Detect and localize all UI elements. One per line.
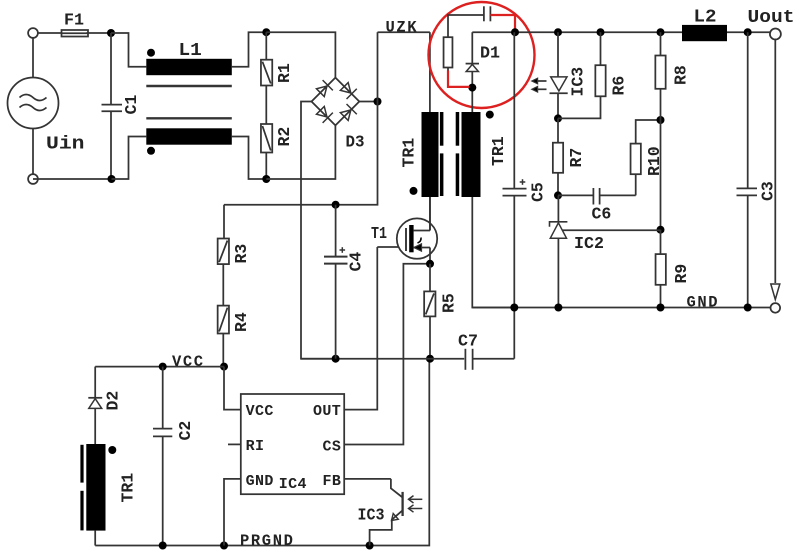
TR1 core dashes xyxy=(440,112,459,196)
svg-text:IC4: IC4 xyxy=(279,476,307,493)
svg-text:OUT: OUT xyxy=(313,403,341,420)
node junction xyxy=(262,28,270,36)
resistor R2 xyxy=(261,124,272,153)
svg-text:Uout: Uout xyxy=(748,8,795,28)
wire primary bottom xyxy=(429,197,431,231)
label C3 xyxy=(759,181,778,201)
wire xyxy=(112,137,147,180)
label TR1 left xyxy=(400,138,419,168)
node junction xyxy=(108,175,116,183)
svg-text:R8: R8 xyxy=(672,65,691,85)
label R1 xyxy=(275,63,294,83)
label C4 xyxy=(347,252,366,272)
wire DC minus xyxy=(301,102,336,359)
svg-text:GND: GND xyxy=(687,294,720,312)
wire xyxy=(266,125,335,179)
TR1 aux polarity dot xyxy=(108,446,116,454)
svg-text:C1: C1 xyxy=(122,95,141,115)
red wire xyxy=(448,71,470,87)
wire xyxy=(266,32,335,78)
resistor R7 xyxy=(553,118,563,195)
svg-text:R2: R2 xyxy=(275,127,294,147)
svg-text:R4: R4 xyxy=(232,312,251,332)
bridge diode top-right xyxy=(340,83,356,99)
bridge diode top-left xyxy=(316,80,332,96)
label IC2 xyxy=(574,235,604,254)
label R2 xyxy=(275,127,294,147)
IC3 LED arrows xyxy=(532,78,547,92)
L1 polarity dot bottom xyxy=(147,147,155,155)
node junction xyxy=(511,28,519,36)
label TR1 right xyxy=(489,136,508,166)
wire IC2 ref xyxy=(563,229,661,231)
TR1 aux core dash xyxy=(80,445,83,531)
wire GND pin xyxy=(224,479,241,546)
svg-text:C5: C5 xyxy=(529,182,548,202)
bridge rectifier D3 diamond xyxy=(312,78,360,126)
wire xyxy=(448,15,484,37)
capacitor C4 xyxy=(324,205,348,359)
node junction xyxy=(159,363,167,371)
node junction xyxy=(332,201,340,209)
label C6 xyxy=(592,205,612,224)
label IC4 xyxy=(279,476,307,493)
wire CS xyxy=(344,264,430,445)
label L2 xyxy=(694,8,717,28)
C4 plus sign xyxy=(340,247,346,253)
terminal input top xyxy=(28,28,38,38)
resistor R4 xyxy=(218,306,229,334)
L1 core xyxy=(146,86,232,118)
label L1 xyxy=(179,41,203,61)
AC source Uin xyxy=(8,38,59,184)
capacitor C3 xyxy=(737,32,758,307)
terminal GND xyxy=(771,303,781,313)
capacitor C1 xyxy=(102,33,123,179)
wire xyxy=(223,205,225,239)
svg-text:R3: R3 xyxy=(232,244,251,264)
node junction xyxy=(107,29,115,37)
wire xyxy=(429,32,431,112)
zener IC2 xyxy=(550,195,568,307)
label R4 xyxy=(232,312,251,332)
node junction xyxy=(510,304,518,312)
label GND xyxy=(687,294,720,312)
wire secondary bottom xyxy=(472,197,514,308)
label R6 xyxy=(610,76,629,96)
wire top rail xyxy=(515,31,682,33)
label T1 xyxy=(371,225,387,244)
op-amp IC4 box xyxy=(241,394,344,494)
bridge diode bottom-right xyxy=(340,104,356,120)
wire VCC pin xyxy=(224,367,241,410)
fuse F1 xyxy=(62,30,89,37)
wire PRGND rail xyxy=(95,359,429,546)
svg-text:IC3: IC3 xyxy=(358,507,385,526)
wire FB xyxy=(344,478,391,480)
wire xyxy=(94,531,96,546)
wire gate xyxy=(377,246,406,248)
capacitor C5 xyxy=(503,32,527,307)
resistor R8 xyxy=(655,32,665,230)
label C7 xyxy=(458,332,478,351)
svg-text:TR1: TR1 xyxy=(489,136,508,166)
wire xyxy=(429,264,431,292)
label Uin xyxy=(46,135,85,155)
C5 plus sign xyxy=(520,179,526,185)
node junction xyxy=(554,28,562,36)
node junction xyxy=(657,226,665,234)
wire secondary rail start xyxy=(472,31,515,33)
node VCC junction xyxy=(220,363,228,371)
wire bus drop xyxy=(224,102,378,205)
node junction xyxy=(366,542,374,550)
svg-text:C6: C6 xyxy=(592,205,612,224)
label UZK xyxy=(386,18,419,36)
svg-text:F1: F1 xyxy=(64,12,84,31)
node junction xyxy=(220,542,228,550)
label F1 xyxy=(64,12,84,31)
wire xyxy=(38,32,61,34)
terminal Uout xyxy=(770,29,781,40)
node junction xyxy=(159,542,167,550)
wire drain xyxy=(429,197,431,231)
resistor R9 xyxy=(656,230,666,308)
wire bottom rail xyxy=(472,307,770,309)
svg-text:C4: C4 xyxy=(347,252,366,272)
inductor L1 winding top xyxy=(146,59,232,75)
node junction xyxy=(468,84,476,92)
red annotation circle xyxy=(429,2,535,108)
node junction xyxy=(374,98,382,106)
wire xyxy=(222,334,224,367)
inductor L2 xyxy=(682,25,727,41)
svg-text:R1: R1 xyxy=(275,63,294,83)
svg-text:C7: C7 xyxy=(458,332,478,351)
node junction xyxy=(426,260,434,268)
label R3 xyxy=(232,244,251,264)
label TR1 aux xyxy=(119,473,138,503)
node junction xyxy=(597,28,605,36)
node junction xyxy=(554,304,562,312)
node junction xyxy=(262,175,270,183)
capacitor C7 xyxy=(465,308,514,370)
label CS pin xyxy=(323,439,342,456)
wire PGND rail xyxy=(301,358,464,360)
node junction xyxy=(332,355,340,363)
svg-text:L2: L2 xyxy=(694,8,717,28)
label IC3 top xyxy=(569,67,588,97)
wire xyxy=(222,264,224,306)
diode IC3 opto-LED xyxy=(550,32,568,118)
label R8 xyxy=(672,65,691,85)
label C5 xyxy=(529,182,548,202)
svg-text:UZK: UZK xyxy=(386,18,419,36)
transformer TR1 secondary winding xyxy=(462,112,481,197)
wire bottom rail xyxy=(33,178,112,180)
resistor R5 xyxy=(424,291,435,316)
svg-text:CS: CS xyxy=(323,439,342,456)
bridge diode bottom-left xyxy=(316,106,332,122)
label IC3 bottom xyxy=(358,507,385,526)
TR1 polarity dot primary xyxy=(410,187,418,195)
node junction xyxy=(744,28,752,36)
svg-text:C3: C3 xyxy=(759,181,778,201)
wire xyxy=(232,137,266,180)
svg-text:Uin: Uin xyxy=(46,135,85,155)
node junction xyxy=(657,304,665,312)
svg-text:GND: GND xyxy=(246,473,274,490)
resistor R10 xyxy=(631,120,661,195)
svg-text:IC3: IC3 xyxy=(569,67,588,97)
wire UZK riser xyxy=(377,32,379,101)
wire xyxy=(87,32,112,34)
label Uout xyxy=(748,8,795,28)
label VCC pin xyxy=(246,403,274,420)
resistor R1 xyxy=(261,60,272,86)
svg-text:PRGND: PRGND xyxy=(240,532,295,550)
wire xyxy=(265,32,267,60)
label R7 xyxy=(567,148,586,168)
svg-text:R5: R5 xyxy=(440,293,459,313)
node junction xyxy=(554,114,562,122)
svg-text:RI: RI xyxy=(246,438,265,455)
snubber resistor xyxy=(444,37,453,67)
label R5 xyxy=(440,293,459,313)
svg-text:TR1: TR1 xyxy=(400,138,419,168)
wire source xyxy=(429,248,431,264)
wire xyxy=(429,316,431,358)
svg-text:C2: C2 xyxy=(176,421,195,441)
wire xyxy=(94,408,96,444)
svg-text:IC2: IC2 xyxy=(574,235,604,254)
label C2 xyxy=(176,421,195,441)
label C1 xyxy=(122,95,141,115)
wire xyxy=(265,153,267,180)
diode D1 xyxy=(466,32,479,112)
svg-text:D1: D1 xyxy=(480,45,500,64)
label GND pin xyxy=(246,473,274,490)
svg-text:T1: T1 xyxy=(371,225,387,244)
node junction xyxy=(744,304,752,312)
label R9 xyxy=(672,264,691,284)
resistor R6 xyxy=(558,32,606,118)
wire RI stub xyxy=(228,443,241,445)
label D3 xyxy=(346,134,365,153)
node junction xyxy=(426,355,434,363)
snubber capacitor xyxy=(484,6,491,21)
capacitor C2 xyxy=(153,367,172,546)
wire UZK rail xyxy=(378,31,430,33)
wire xyxy=(232,32,266,66)
node junction xyxy=(657,28,665,36)
svg-text:D3: D3 xyxy=(346,134,365,153)
label OUT pin xyxy=(313,403,341,420)
resistor R3 xyxy=(218,239,229,265)
wire xyxy=(94,367,96,398)
wire VCC rail xyxy=(95,366,224,368)
svg-text:VCC: VCC xyxy=(246,403,274,420)
wire xyxy=(265,86,267,125)
red wire xyxy=(490,15,515,31)
wire DC plus xyxy=(359,101,377,103)
node junction xyxy=(657,116,665,124)
svg-text:R7: R7 xyxy=(567,148,586,168)
svg-text:L1: L1 xyxy=(179,41,203,61)
wire xyxy=(447,68,449,73)
wire Uout voltage arrow xyxy=(771,39,780,300)
L1 polarity dot top xyxy=(147,49,155,57)
capacitor C6 xyxy=(558,188,636,205)
node junction xyxy=(554,191,562,199)
diode D2 xyxy=(88,398,102,409)
transistor T1 MOSFET xyxy=(397,218,437,258)
transformer TR1 aux winding xyxy=(86,444,105,531)
svg-text:D2: D2 xyxy=(104,391,123,411)
wire OUT to gate xyxy=(344,247,377,410)
wire xyxy=(727,31,770,33)
svg-text:R9: R9 xyxy=(672,264,691,284)
label R10 xyxy=(645,146,664,176)
label D1 xyxy=(480,45,500,64)
svg-text:TR1: TR1 xyxy=(119,473,138,503)
label D2 xyxy=(104,391,123,411)
label RI pin xyxy=(246,438,265,455)
transformer TR1 primary winding xyxy=(422,112,439,197)
label VCC xyxy=(172,353,205,371)
wire xyxy=(111,33,146,67)
transistor IC3 opto-output xyxy=(370,479,423,546)
label PRGND xyxy=(240,532,295,550)
svg-text:VCC: VCC xyxy=(172,353,205,371)
TR1 polarity dot secondary xyxy=(486,111,494,119)
svg-text:FB: FB xyxy=(323,473,342,490)
inductor L1 winding bottom xyxy=(146,128,232,144)
svg-text:R6: R6 xyxy=(610,76,629,96)
label FB pin xyxy=(323,473,342,490)
